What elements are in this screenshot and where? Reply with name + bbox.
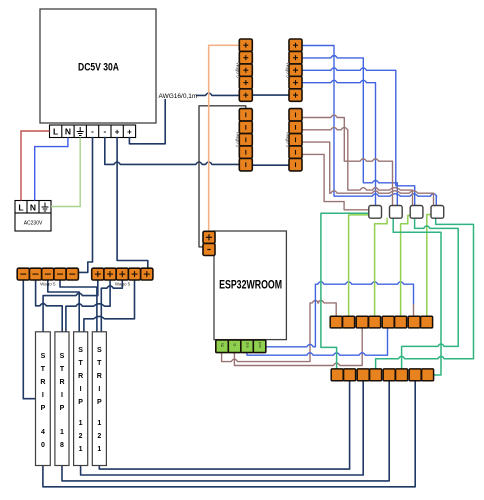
- svg-text:I: I: [61, 392, 63, 399]
- wire minus c1 to strip1 left: [23, 280, 35, 399]
- wago bus upper 8x (4 x 2-gang): [330, 316, 432, 328]
- wire plus c4 to strip3: [84, 280, 135, 332]
- svg-text:AWG16/0,1m: AWG16/0,1m: [159, 93, 198, 100]
- wago block D (-) vertical 5x: [285, 109, 302, 171]
- ESP io terminal 4x green: [216, 340, 266, 353]
- resistor R2: [390, 206, 403, 219]
- svg-text:Wago 5: Wago 5: [285, 62, 290, 78]
- wire Wago A-B link: [252, 94, 289, 96]
- svg-text:P: P: [41, 405, 46, 412]
- svg-text:S: S: [97, 347, 102, 354]
- svg-text:I: I: [98, 386, 100, 393]
- svg-text:-: -: [91, 127, 94, 136]
- LED strip 1 STRIP 40: [36, 332, 51, 466]
- wire R1 to bus U c2: [349, 215, 369, 316]
- svg-text:2: 2: [97, 433, 101, 440]
- wire Wago C-D link: [252, 164, 289, 166]
- resistor R1: [369, 206, 382, 219]
- wire earth green: [51, 138, 80, 207]
- svg-text:1: 1: [97, 446, 101, 453]
- svg-text:io4: io4: [257, 341, 262, 347]
- LED strip 3 STRIP 121: [74, 332, 88, 466]
- svg-text:R: R: [40, 379, 45, 386]
- terminal strip of U1: L N GND - - + +: [50, 125, 136, 138]
- wire D2 to R3: [301, 127, 412, 205]
- wire ESP io4 toward bus U c7: [266, 282, 414, 347]
- wire minus c3 to strip3: [48, 280, 79, 332]
- wago bus lower 8x (4 x 2-gang): [331, 369, 433, 381]
- svg-text:Wago 5: Wago 5: [285, 132, 290, 148]
- label AWG16/0,1m: [158, 92, 196, 100]
- wire L red: [21, 131, 50, 201]
- AC source box AC230V: [15, 201, 51, 232]
- LED strip 2 STRIP 18: [55, 332, 69, 466]
- wire minus c4 to strip2: [60, 280, 97, 332]
- wire ESP io1 to bus U c1: [222, 301, 337, 362]
- svg-text:DC5V 30A: DC5V 30A: [78, 62, 119, 74]
- svg-text:R: R: [78, 373, 83, 380]
- svg-text:R: R: [97, 373, 102, 380]
- svg-text:L: L: [18, 203, 23, 213]
- svg-text:1: 1: [60, 429, 64, 436]
- svg-text:R: R: [59, 379, 64, 386]
- svg-text:1: 1: [79, 446, 83, 453]
- wire Wago A to ESP plus: [209, 45, 240, 231]
- svg-text:G: G: [232, 343, 237, 346]
- svg-text:T: T: [78, 360, 83, 367]
- wire R2 to bus L right: [393, 218, 441, 375]
- wago block C (-) vertical 5x: [236, 109, 253, 171]
- svg-text:5v: 5v: [220, 343, 225, 347]
- svg-text:P: P: [60, 405, 65, 412]
- wire R3 to bus U c6: [401, 215, 411, 316]
- svg-text:T: T: [97, 360, 102, 367]
- wire R1 to bus L c1: [321, 213, 369, 369]
- power supply U1 DC5V 30A: [40, 9, 156, 123]
- wire ESP io3 to bus U c5: [247, 328, 388, 355]
- microcontroller U2 ESP32WROOM: [214, 231, 286, 340]
- svg-text:Wago 5: Wago 5: [40, 282, 56, 287]
- wire D4 to R1: [301, 154, 369, 209]
- svg-text:S: S: [78, 347, 83, 354]
- wire strip2 data to bus c5: [62, 381, 389, 481]
- svg-text:ESP32WROOM: ESP32WROOM: [219, 280, 282, 292]
- svg-text:1: 1: [97, 420, 101, 427]
- svg-text:io2: io2: [245, 341, 250, 347]
- svg-text:S: S: [41, 353, 46, 360]
- svg-text:AC230V: AC230V: [24, 221, 43, 227]
- wire R4 to bus L c4: [376, 218, 474, 369]
- svg-text:S: S: [60, 353, 65, 360]
- wire ESP io2 to bus U c3: [234, 328, 362, 366]
- wire R2 to bus U c4: [375, 218, 388, 316]
- svg-text:T: T: [41, 366, 46, 373]
- svg-text:+: +: [115, 128, 120, 137]
- svg-text:4: 4: [41, 429, 45, 436]
- wago block B (+) vertical 5x: [285, 39, 302, 101]
- svg-text:0: 0: [41, 442, 45, 449]
- wire strip3 data to bus c3: [81, 381, 364, 475]
- wire Wago C to ESP minus: [199, 106, 246, 247]
- svg-text:Wago 5: Wago 5: [236, 62, 241, 78]
- wire D1 to R2: [301, 115, 392, 205]
- resistor R4: [431, 206, 444, 219]
- wire plus c2 to strip2: [66, 280, 110, 332]
- wire D3 to R4: [301, 142, 433, 205]
- resistor R3: [410, 206, 423, 219]
- wire B4 to R1: [301, 80, 375, 205]
- wire brown tail into bus U c7: [413, 304, 415, 316]
- svg-text:2: 2: [79, 433, 83, 440]
- wire B3 to R3: [301, 68, 414, 206]
- wire R3 to bus L c6: [402, 218, 459, 369]
- svg-text:N: N: [30, 203, 36, 213]
- wire strip4 data to bus c2: [99, 381, 349, 469]
- svg-text:I: I: [80, 386, 82, 393]
- wago block A (+) vertical 5x: [236, 39, 253, 101]
- svg-text:Wago 5: Wago 5: [115, 282, 131, 287]
- wire +5V to plus strip: [117, 138, 148, 269]
- wago strip minus horizontal 5x: [17, 268, 78, 286]
- svg-text:L: L: [53, 127, 58, 137]
- svg-text:1: 1: [79, 420, 83, 427]
- svg-text:T: T: [60, 366, 65, 373]
- wire plus c1 to strip1: [43, 280, 98, 332]
- svg-text:-: -: [103, 127, 106, 136]
- wire R4 to bus U c8: [427, 215, 431, 317]
- svg-text:P: P: [97, 399, 102, 406]
- svg-text:+: +: [127, 128, 132, 137]
- wire +5V AWG16 to Wago A: [129, 93, 239, 144]
- wire GND to minus strip: [78, 138, 92, 273]
- svg-text:N: N: [65, 127, 71, 137]
- wire plus c3 to strip4: [101, 280, 122, 332]
- svg-text:I: I: [42, 392, 44, 399]
- svg-text:P: P: [78, 399, 83, 406]
- wire minus c2 to strip4: [36, 280, 63, 332]
- wago strip plus horizontal 5x: [92, 268, 153, 286]
- svg-text:Wago 5: Wago 5: [236, 132, 241, 148]
- wire B1 to R4: [301, 46, 436, 206]
- svg-text:8: 8: [60, 442, 64, 449]
- ESP power terminal 2x (+ -): [203, 231, 215, 255]
- wire B2 to R2: [301, 56, 397, 206]
- LED strip 4 STRIP 121: [92, 332, 106, 466]
- wire GND to Wago C: [105, 138, 240, 165]
- wire N blue: [35, 138, 68, 201]
- wire strip1 data to bus c7: [43, 381, 415, 487]
